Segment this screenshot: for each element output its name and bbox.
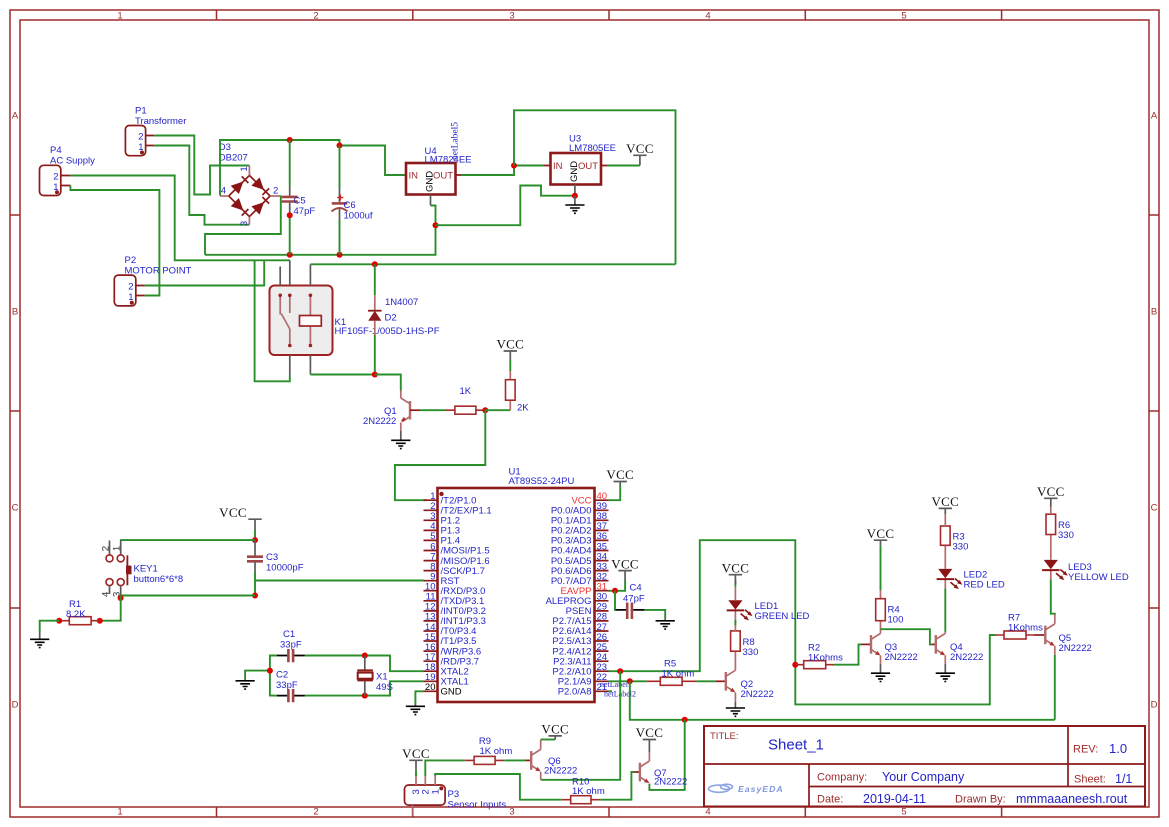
ground (Q3 emitter) bbox=[871, 664, 890, 682]
svg-text:47pF: 47pF bbox=[294, 206, 316, 217]
wire R10 to Q7 base bbox=[600, 772, 634, 800]
wire DC+ rail to U4 IN bbox=[340, 146, 405, 176]
svg-text:3: 3 bbox=[509, 807, 514, 818]
svg-text:1000uf: 1000uf bbox=[344, 211, 373, 222]
wire U4 OUT to U3 IN bbox=[461, 166, 544, 176]
svg-text:D: D bbox=[1151, 700, 1158, 711]
ground (C1/C2) bbox=[236, 679, 255, 689]
svg-text:3: 3 bbox=[509, 11, 514, 22]
wire VCC to P3 pin3 bbox=[415, 771, 417, 777]
wire Q1 base to resistor 1K bbox=[420, 409, 446, 411]
transistor Q3 2N2222 bbox=[862, 633, 918, 663]
svg-text:2N2222: 2N2222 bbox=[885, 652, 918, 663]
connector P3 Sensor Inputs bbox=[405, 776, 507, 815]
wire U1 GND pin20 to ground bbox=[415, 691, 423, 704]
svg-text:49S: 49S bbox=[376, 682, 393, 693]
svg-text:4: 4 bbox=[705, 807, 710, 818]
wire C2 to XTAL1 pin19 bbox=[305, 681, 424, 695]
wire pin31 node to C4 bbox=[614, 591, 617, 610]
junction X1 top bbox=[362, 653, 368, 659]
wire LED2 cathode to Q4 collector bbox=[944, 588, 946, 632]
wire KEY1 top rail bbox=[120, 539, 255, 541]
resistor R5 1K ohm bbox=[647, 659, 697, 686]
connector P1 Transformer bbox=[125, 106, 186, 156]
svg-text:Date:: Date: bbox=[817, 794, 843, 806]
svg-text:LM7805EE: LM7805EE bbox=[569, 143, 616, 154]
capacitor C5 47pF bbox=[282, 140, 316, 255]
wire C1 to XTAL2 pin18 bbox=[305, 656, 424, 672]
wire base node to 2K bbox=[485, 409, 510, 411]
wire pin23 junction down to Q6 emitter bbox=[541, 671, 621, 780]
svg-text:5: 5 bbox=[901, 807, 906, 818]
svg-text:VCC: VCC bbox=[722, 560, 750, 575]
wire U1 pin31 to VCC bbox=[609, 581, 626, 591]
transistor Q7 2N2222 bbox=[634, 761, 687, 788]
svg-text:Sheet_1: Sheet_1 bbox=[768, 737, 824, 754]
transistor Q6 2N2222 bbox=[526, 749, 578, 779]
power flag VCC (R6) bbox=[1037, 484, 1065, 507]
svg-text:button6*6*8: button6*6*8 bbox=[134, 574, 184, 585]
svg-text:1: 1 bbox=[117, 807, 122, 818]
wire Q3 collector to Q4 base bbox=[881, 629, 933, 644]
ground (Q2 emitter) bbox=[726, 702, 745, 716]
svg-text:C: C bbox=[1151, 503, 1158, 514]
wire U1 pin21 stub bbox=[609, 690, 613, 692]
wire U4 GND node to U3 GND bbox=[436, 186, 575, 226]
power flag VCC (C3/KEY1) bbox=[219, 505, 262, 530]
svg-text:VCC: VCC bbox=[931, 494, 959, 509]
crystal X1 49S bbox=[357, 656, 393, 696]
wire P1 pin1 to bridge pin3 bbox=[154, 146, 249, 225]
svg-text:2: 2 bbox=[138, 131, 143, 142]
resistor R6 330 bbox=[1046, 507, 1074, 541]
svg-text:1K ohm: 1K ohm bbox=[662, 669, 695, 680]
wire U4 GND to ground node bbox=[431, 206, 436, 226]
wire P4 pin2 to relay pin (net AC1) bbox=[70, 176, 289, 261]
wire bridge pin2 down to DC- rail bbox=[205, 196, 281, 255]
wire base node down to U1 pin1 bbox=[395, 410, 485, 500]
junction relay coil top rail / D2 bbox=[372, 261, 378, 267]
svg-text:20: 20 bbox=[425, 682, 436, 693]
junction C6 top bbox=[337, 143, 343, 149]
junction R1 right bbox=[97, 618, 103, 624]
svg-text:1: 1 bbox=[117, 11, 122, 22]
resistor R10 1K ohm bbox=[562, 777, 605, 804]
svg-text:1N4007: 1N4007 bbox=[385, 297, 418, 308]
power flag VCC (P3 pin3) bbox=[402, 746, 430, 771]
resistor R3 330 bbox=[941, 514, 969, 553]
wire U1 pin40 to VCC bbox=[609, 485, 621, 500]
pin 3 of D3 bbox=[248, 217, 250, 225]
svg-text:2N2222: 2N2222 bbox=[950, 652, 983, 663]
title block bbox=[704, 726, 1145, 807]
regulator U4 LM7824EE bbox=[405, 146, 472, 206]
wire R5 to Q2 base bbox=[696, 680, 716, 682]
svg-text:33pF: 33pF bbox=[276, 680, 298, 691]
wire P3 pin2 to R9 bbox=[425, 760, 465, 776]
junction C6 bottom bbox=[337, 252, 343, 258]
junction U4 OUT node bbox=[511, 163, 517, 169]
power flag VCC (U1 pin31) bbox=[611, 556, 639, 581]
junction Q1 base node bbox=[482, 407, 488, 413]
svg-text:2K: 2K bbox=[517, 403, 529, 414]
wire KEY1 bottom rail bbox=[120, 595, 255, 597]
svg-text:2019-04-11: 2019-04-11 bbox=[863, 792, 926, 806]
wire bottom emitter rail bbox=[630, 681, 1055, 720]
svg-text:1Kohms: 1Kohms bbox=[808, 653, 843, 664]
svg-text:AT89S52-24PU: AT89S52-24PU bbox=[509, 476, 575, 487]
svg-text:netLabel5: netLabel5 bbox=[451, 122, 461, 160]
svg-text:X1: X1 bbox=[376, 672, 388, 683]
svg-text:Sheet:: Sheet: bbox=[1074, 774, 1106, 786]
svg-text:C4: C4 bbox=[630, 583, 642, 594]
wire VCC loop from U4 OUT node to relay coil rail bbox=[514, 110, 676, 264]
svg-text:Transformer: Transformer bbox=[135, 116, 186, 127]
svg-text:VCC: VCC bbox=[626, 141, 654, 156]
svg-text:1K ohm: 1K ohm bbox=[480, 746, 513, 757]
svg-text:2: 2 bbox=[100, 546, 111, 551]
capacitor C4 47pF bbox=[616, 583, 645, 620]
power flag VCC (2K) bbox=[496, 337, 524, 371]
wire Q7 collector to VCC bbox=[648, 752, 650, 761]
svg-text:C1: C1 bbox=[283, 629, 295, 640]
svg-text:1K: 1K bbox=[460, 386, 472, 397]
svg-text:Company:: Company: bbox=[817, 772, 867, 784]
svg-text:1Kohms: 1Kohms bbox=[1008, 623, 1043, 634]
svg-text:GND: GND bbox=[569, 161, 580, 182]
resistor R4 100 bbox=[876, 590, 904, 633]
junction C5 bottom bbox=[287, 252, 293, 258]
svg-text:VCC: VCC bbox=[606, 467, 634, 482]
wire relay bottom pin to D2/Q1 node bbox=[310, 374, 374, 376]
relay K1 HF105F-1/005D-1HS-PF bbox=[270, 260, 440, 375]
resistor R1 8.2K bbox=[59, 599, 100, 625]
power flag VCC (Q7) bbox=[636, 725, 664, 752]
svg-text:4: 4 bbox=[221, 186, 226, 197]
svg-text:330: 330 bbox=[743, 647, 759, 658]
svg-text:A: A bbox=[1151, 111, 1158, 122]
svg-text:VCC: VCC bbox=[867, 526, 895, 541]
svg-text:2: 2 bbox=[273, 186, 278, 197]
bridge rectifier D3 DB207 bbox=[219, 142, 281, 226]
junction pin31/C4 bbox=[612, 588, 618, 594]
resistor R7 1Kohms bbox=[996, 613, 1044, 640]
junction X1 bottom bbox=[362, 693, 368, 699]
svg-text:YELLOW LED: YELLOW LED bbox=[1068, 572, 1129, 583]
svg-text:VCC: VCC bbox=[611, 556, 639, 571]
transistor Q4 2N2222 bbox=[932, 633, 983, 663]
svg-text:2: 2 bbox=[313, 807, 318, 818]
svg-text:AC Supply: AC Supply bbox=[50, 156, 95, 167]
power flag VCC (R4) bbox=[867, 526, 895, 545]
svg-text:10000pF: 10000pF bbox=[266, 563, 304, 574]
svg-text:MOTOR POINT: MOTOR POINT bbox=[125, 266, 192, 277]
wire U1 pin23 long net to R7 bbox=[609, 540, 996, 704]
power flag VCC (Q6) bbox=[541, 722, 569, 740]
svg-text:2: 2 bbox=[128, 281, 133, 292]
junction C3 bottom bbox=[252, 593, 258, 599]
ground (Q1 emitter) bbox=[391, 431, 410, 449]
power flag VCC (U3 OUT) bbox=[626, 141, 654, 166]
svg-text:100: 100 bbox=[888, 615, 904, 626]
wire P2 pin2 to net AC1 bbox=[145, 260, 265, 285]
wire Q5 emitter to bottom rail bbox=[1054, 655, 1056, 720]
svg-text:A: A bbox=[12, 111, 19, 122]
power flag VCC (LED1) bbox=[722, 560, 750, 584]
wire R1 to ground bbox=[40, 621, 60, 632]
svg-text:5: 5 bbox=[901, 11, 906, 22]
power flag VCC (R3) bbox=[931, 494, 959, 514]
junction pin23 bbox=[617, 668, 623, 674]
capacitor C2 33pF bbox=[276, 670, 305, 703]
power flag VCC (U1 pin40) bbox=[606, 467, 634, 485]
svg-text:HF105F-1/005D-1HS-PF: HF105F-1/005D-1HS-PF bbox=[335, 326, 440, 337]
svg-text:2N2222: 2N2222 bbox=[363, 416, 396, 427]
svg-text:GND: GND bbox=[441, 687, 462, 698]
resistor 1K (Q1 base) bbox=[446, 386, 486, 414]
switch KEY1 button6*6*8 bbox=[100, 540, 183, 597]
resistor R2 1Kohms bbox=[795, 643, 843, 669]
diode D2 1N4007 bbox=[368, 264, 418, 374]
wire KEY1 to R1 bbox=[100, 596, 121, 621]
connector P4 AC Supply bbox=[40, 145, 96, 196]
svg-text:Drawn By:: Drawn By: bbox=[955, 794, 1006, 806]
wire C3 bottom to KEY1 bottom rail bbox=[254, 581, 256, 596]
svg-text:P4: P4 bbox=[50, 145, 62, 156]
svg-text:VCC: VCC bbox=[636, 725, 664, 740]
connector P2 MOTOR POINT bbox=[114, 255, 191, 306]
svg-text:GND: GND bbox=[425, 171, 436, 192]
svg-text:1: 1 bbox=[239, 166, 250, 171]
wire bridge pin4 up to DC+ rail bbox=[220, 140, 340, 196]
svg-text:VCC: VCC bbox=[541, 722, 569, 737]
svg-text:1.0: 1.0 bbox=[1109, 741, 1127, 756]
wire VCC to C3 top node bbox=[254, 530, 256, 540]
junction D2 bottom bbox=[372, 372, 378, 378]
capacitor C6 1000uf (electrolytic) bbox=[332, 146, 373, 255]
svg-text:VCC: VCC bbox=[1037, 484, 1065, 499]
wire relay bottom-left pin to AC1 net bbox=[255, 260, 290, 381]
svg-text:KEY1: KEY1 bbox=[134, 564, 158, 575]
resistor R8 330 bbox=[731, 631, 759, 670]
svg-text:1: 1 bbox=[430, 789, 441, 794]
svg-text:IN: IN bbox=[553, 161, 563, 172]
svg-text:C2: C2 bbox=[276, 670, 288, 681]
svg-text:1/1: 1/1 bbox=[1115, 772, 1132, 786]
wire R4 to VCC bbox=[880, 545, 882, 590]
svg-text:EasyEDA: EasyEDA bbox=[738, 784, 784, 794]
junction R2 left bbox=[792, 662, 798, 668]
junction U4 GND node bbox=[433, 222, 439, 228]
ground (R1) bbox=[30, 632, 49, 648]
ground (C4) bbox=[656, 619, 675, 629]
svg-text:B: B bbox=[1151, 307, 1157, 318]
junction C5 top bbox=[287, 137, 293, 143]
IC U1 AT89S52-24PU bbox=[424, 467, 609, 703]
svg-text:2N2222: 2N2222 bbox=[544, 766, 577, 777]
svg-text:RED LED: RED LED bbox=[964, 580, 1005, 591]
svg-text:P2.0/A8: P2.0/A8 bbox=[558, 687, 592, 698]
ground (U3 GND) bbox=[565, 196, 584, 214]
ground (U1 GND) bbox=[406, 705, 425, 715]
wire U3 OUT to VCC bbox=[607, 165, 640, 167]
svg-text:B: B bbox=[12, 307, 18, 318]
wire LED3 cathode to Q5 collector bbox=[1051, 579, 1055, 614]
svg-text:C6: C6 bbox=[344, 200, 356, 211]
ground (Q4 emitter) bbox=[936, 664, 955, 682]
capacitor C3 10000pF bbox=[247, 540, 304, 580]
svg-text:C3: C3 bbox=[266, 552, 278, 563]
svg-text:C5: C5 bbox=[294, 196, 306, 207]
svg-text:330: 330 bbox=[953, 542, 969, 553]
svg-text:2N2222: 2N2222 bbox=[1059, 643, 1092, 654]
svg-text:GREEN LED: GREEN LED bbox=[755, 611, 810, 622]
svg-text:OUT: OUT bbox=[578, 161, 598, 172]
wire relay coil rail bbox=[310, 263, 675, 265]
svg-text:VCC: VCC bbox=[219, 505, 247, 520]
wire Q6 collector to VCC bbox=[540, 740, 542, 750]
LED1 GREEN LED bbox=[727, 580, 810, 631]
wire C3 bottom to U1 RST pin9 bbox=[255, 580, 424, 582]
svg-text:2N2222: 2N2222 bbox=[654, 777, 687, 788]
svg-text:Sensor Inputs: Sensor Inputs bbox=[448, 799, 507, 810]
regulator U3 LM7805EE bbox=[544, 134, 616, 196]
svg-text:D: D bbox=[12, 700, 19, 711]
junction KEY1 pin3 bbox=[118, 595, 124, 601]
wire DC- bottom rail bbox=[205, 225, 436, 255]
wire R9 to Q6 base bbox=[504, 759, 525, 761]
junction pin22 bbox=[627, 678, 633, 684]
LED3 YELLOW LED bbox=[1042, 535, 1129, 584]
junction bottom rail / Q7 bbox=[682, 717, 688, 723]
transistor Q1 2N2222 bbox=[363, 391, 420, 432]
svg-text:2: 2 bbox=[53, 171, 58, 182]
svg-text:D2: D2 bbox=[385, 313, 397, 324]
svg-text:3: 3 bbox=[239, 221, 250, 226]
svg-text:4: 4 bbox=[705, 11, 710, 22]
svg-text:VCC: VCC bbox=[496, 337, 524, 352]
svg-text:C: C bbox=[12, 503, 19, 514]
wire Q7 emitter to bottom rail bbox=[649, 720, 684, 790]
transistor Q2 2N2222 bbox=[716, 670, 774, 702]
wire C1/C2 left rail to ground bbox=[245, 656, 277, 696]
LED2 RED LED bbox=[937, 545, 1005, 590]
wire P4 pin1 to P2 pin1 bbox=[70, 186, 159, 296]
wire P1 pin2 to bridge pin1 bbox=[154, 136, 249, 195]
transistor Q5 2N2222 bbox=[1034, 624, 1092, 655]
svg-text:IN: IN bbox=[409, 171, 419, 182]
wire R2 to Q3 base bbox=[834, 644, 861, 664]
svg-text:VCC: VCC bbox=[402, 746, 430, 761]
svg-text:DB207: DB207 bbox=[219, 153, 248, 164]
svg-text:1: 1 bbox=[111, 546, 122, 551]
svg-text:LM7824EE: LM7824EE bbox=[425, 154, 472, 165]
svg-text:mmmaaaneesh.rout: mmmaaaneesh.rout bbox=[1016, 792, 1128, 806]
svg-text:1K ohm: 1K ohm bbox=[572, 786, 605, 797]
svg-text:OUT: OUT bbox=[433, 171, 453, 182]
wire U1 pin22 to R5 bbox=[609, 680, 647, 682]
svg-text:P1: P1 bbox=[135, 106, 147, 117]
svg-text:REV:: REV: bbox=[1073, 744, 1098, 756]
pin 4 of D3 bbox=[220, 195, 229, 197]
junction C3 top bbox=[252, 537, 258, 543]
svg-text:4: 4 bbox=[100, 592, 111, 597]
svg-text:Your Company: Your Company bbox=[882, 770, 965, 784]
svg-text:330: 330 bbox=[1058, 530, 1074, 541]
resistor 2K (pull-up) bbox=[506, 371, 530, 414]
wire P3 pin1 to R10 bbox=[435, 774, 562, 800]
svg-text:33pF: 33pF bbox=[280, 640, 302, 651]
junction R1 left bbox=[56, 618, 62, 624]
svg-text:2N2222: 2N2222 bbox=[741, 689, 774, 700]
junction C1/C2 left bbox=[267, 668, 273, 674]
capacitor C1 33pF bbox=[277, 629, 305, 662]
pin 2 of D3 bbox=[270, 195, 281, 197]
pin 1 of D3 bbox=[248, 166, 250, 176]
resistor R9 1K ohm bbox=[465, 736, 513, 764]
svg-text:TITLE:: TITLE: bbox=[710, 731, 739, 742]
wire D2 node to Q1 collector bbox=[375, 375, 401, 391]
junction U3 GND node bbox=[572, 193, 578, 199]
svg-text:8.2K: 8.2K bbox=[66, 609, 86, 620]
svg-text:P2: P2 bbox=[125, 255, 137, 266]
wire C4 to ground bbox=[645, 610, 666, 619]
svg-text:2: 2 bbox=[313, 11, 318, 22]
